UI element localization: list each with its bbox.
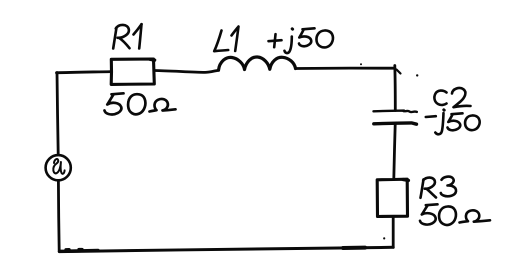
stray dot above top wire — [360, 63, 362, 65]
source V1 circle — [46, 155, 71, 180]
capacitor C2 — [374, 111, 417, 113]
wire bottom-left vertical — [57, 182, 61, 252]
label -j50 — [426, 110, 480, 134]
wire R1 to inductor — [155, 70, 219, 72]
wire bottom horizontal — [59, 247, 393, 251]
wire top-left horizontal — [57, 72, 112, 73]
wire right vertical to capacitor — [393, 66, 396, 111]
wire capacitor to R3 — [394, 125, 395, 180]
wire bottom thick blob — [343, 246, 365, 250]
source squiggle — [53, 159, 64, 174]
wire inductor to top-right corner — [296, 67, 395, 70]
resistor R1 — [111, 59, 154, 84]
label 50ohm beside R3 — [420, 204, 490, 225]
label +j50 — [269, 28, 333, 53]
label L1 — [214, 27, 238, 52]
inductor L1 — [219, 57, 296, 70]
wire R3 to bottom-right corner — [392, 217, 395, 247]
label R3 — [421, 177, 457, 198]
label R1 — [113, 24, 141, 48]
resistor R3 — [377, 179, 407, 216]
wire bottom rough left segment — [60, 250, 98, 252]
label C2 — [434, 88, 470, 107]
wire left vertical upper — [57, 73, 58, 155]
corner tick top-right — [397, 70, 401, 74]
stray dot right of corner — [416, 74, 418, 76]
label 50ohm under R1 — [105, 93, 176, 114]
stray dot above bottom wire — [383, 237, 385, 239]
